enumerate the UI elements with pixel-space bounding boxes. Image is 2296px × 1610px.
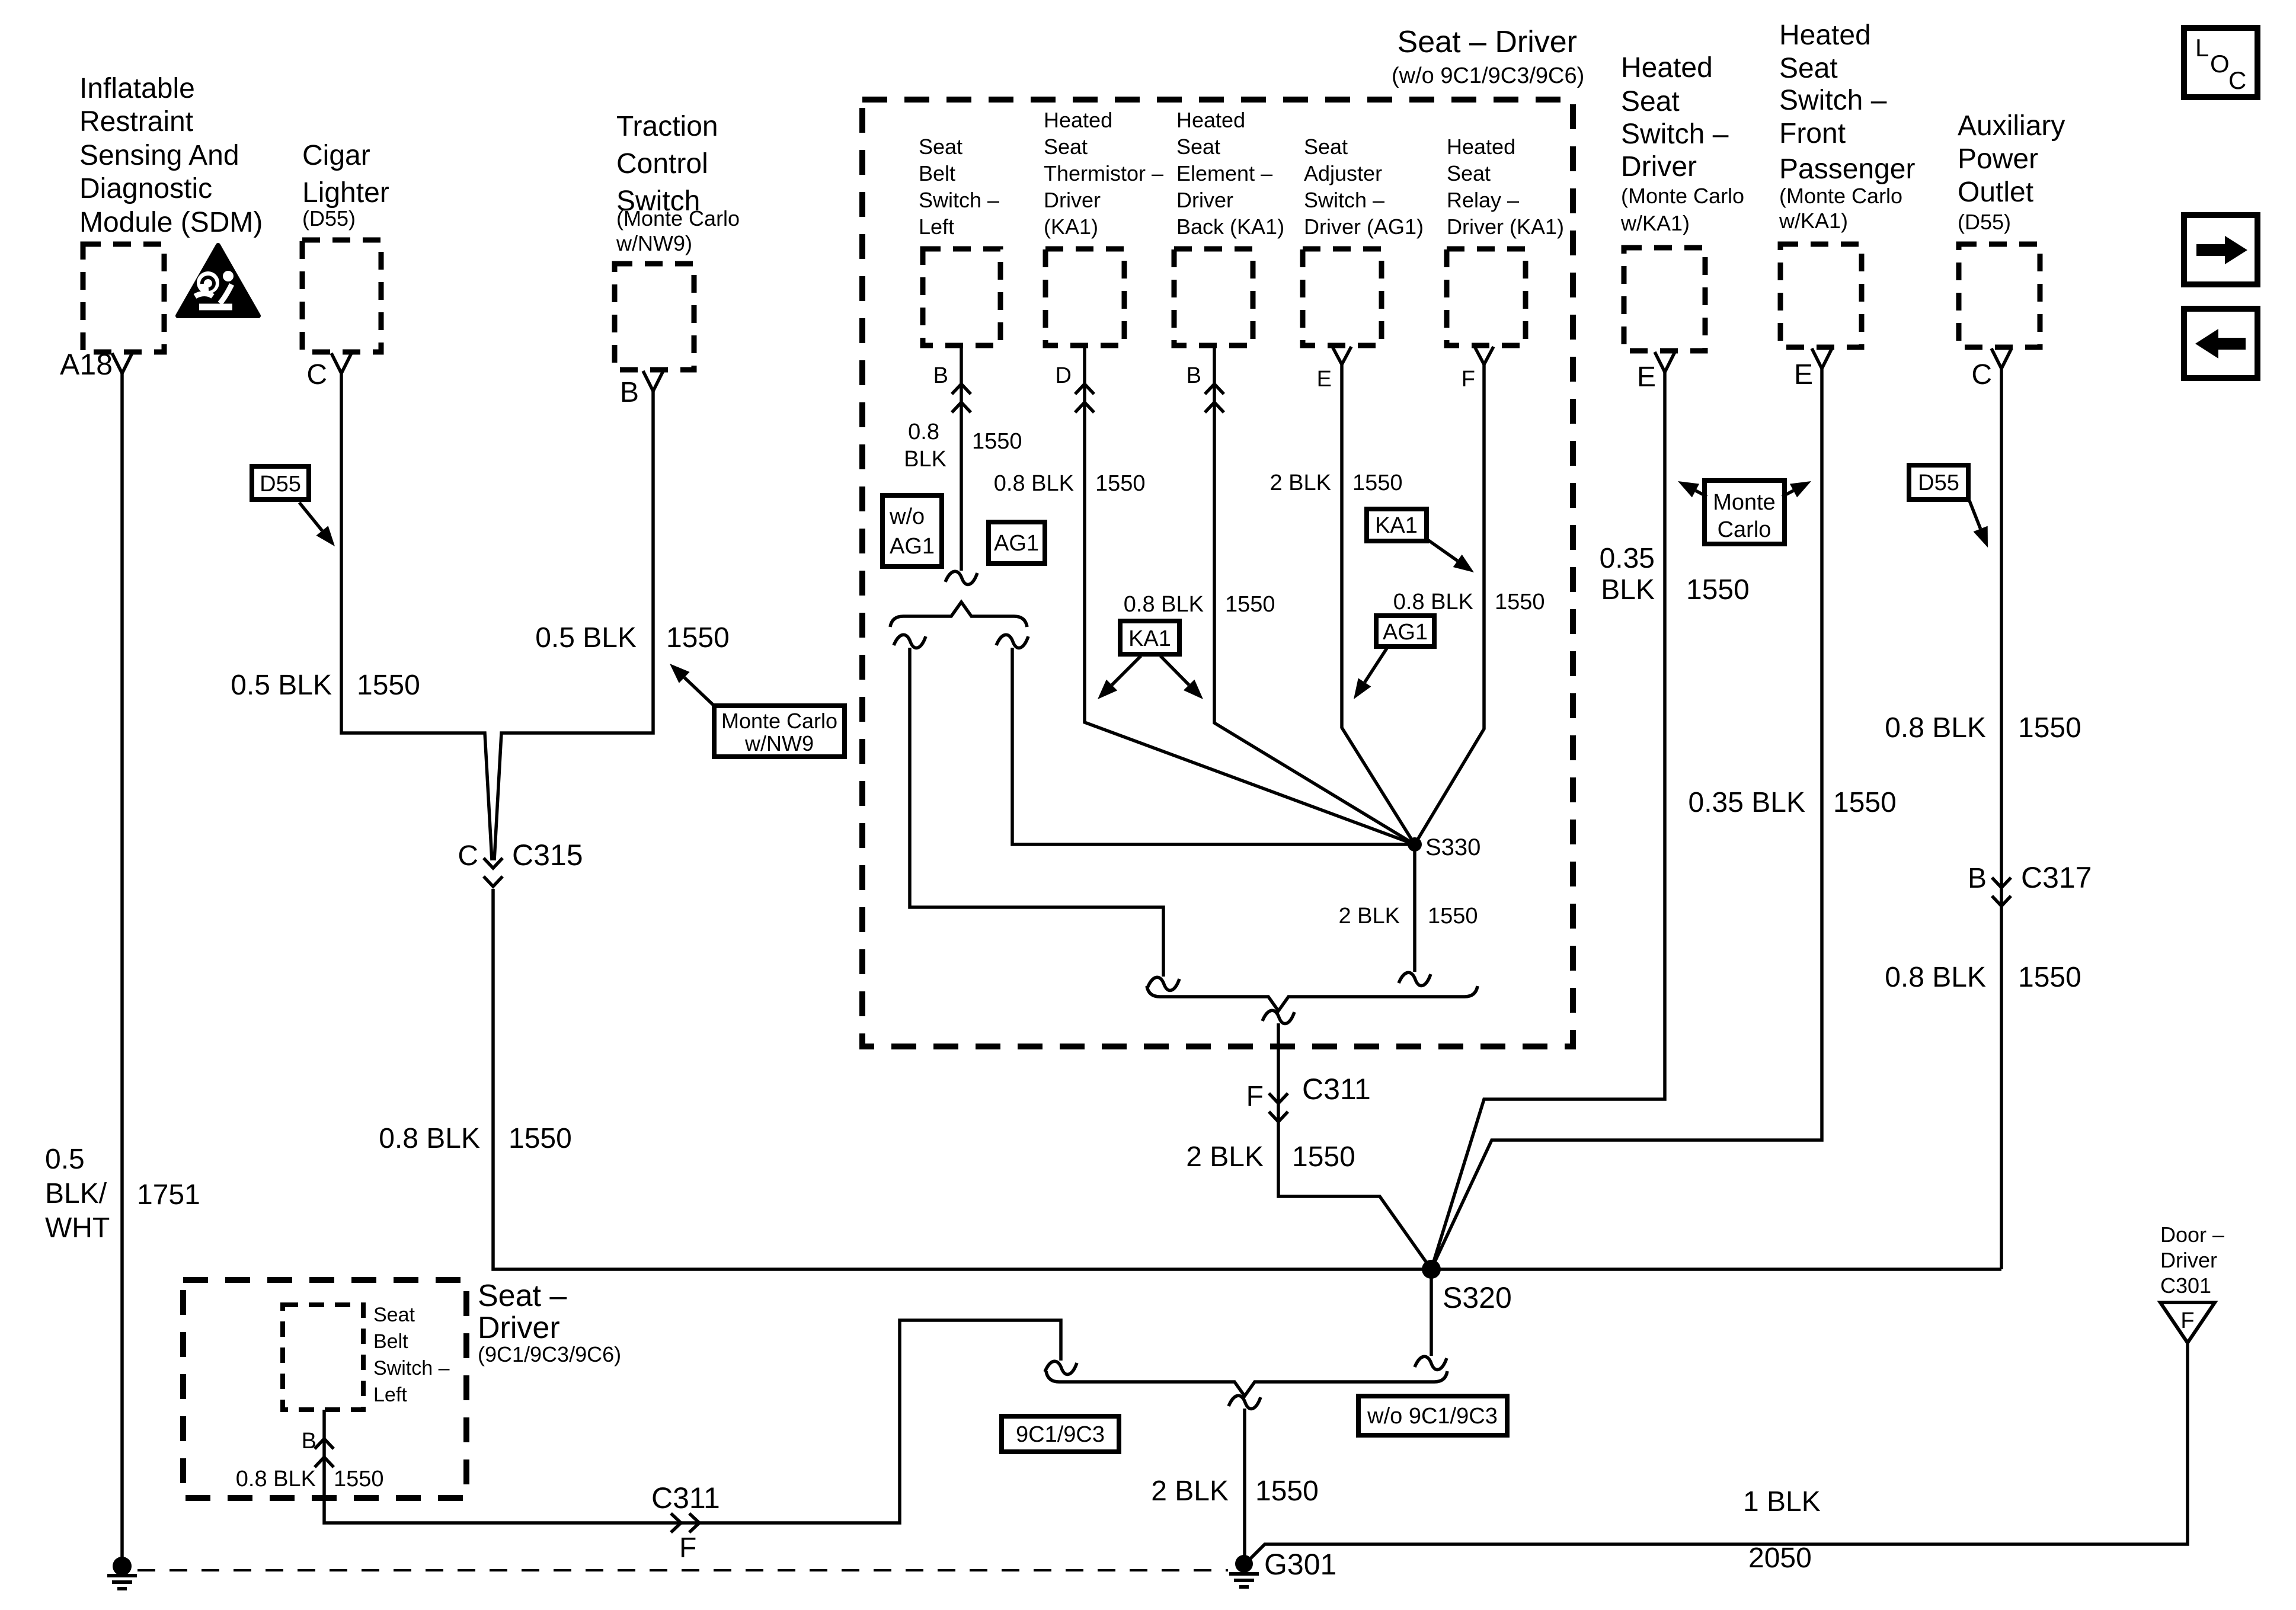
inline connector C317 (double chevron down) [1992, 878, 2011, 906]
brace (upward) joining w/o AG1 and AG1 branches [890, 602, 1027, 627]
callout arrow Monte Carlo to driver switch wire [1696, 491, 1707, 497]
connector box Auxiliary Power Outlet (dashed) [1959, 244, 2040, 347]
svg-text:B: B [1968, 863, 1987, 894]
terminal E of heated seat switch driver [1655, 352, 1675, 372]
svg-text:Driver: Driver [1176, 188, 1233, 212]
svg-text:BLK/: BLK/ [45, 1178, 107, 1209]
connector box SDM (dashed) [83, 244, 164, 352]
svg-text:Driver: Driver [1621, 151, 1697, 183]
svg-text:B: B [933, 363, 948, 388]
wire 1 BLK 2050 from G301 to door driver C301 [1251, 1343, 2188, 1558]
svg-text:C: C [1971, 359, 1992, 391]
svg-text:(KA1): (KA1) [1044, 215, 1098, 239]
svg-text:2 BLK: 2 BLK [1151, 1475, 1229, 1507]
svg-text:w/o 9C1/9C3: w/o 9C1/9C3 [1367, 1404, 1498, 1429]
wire 9C1/9C3 branch from seat belt switch to brace [324, 1320, 1061, 1523]
svg-text:Switch –: Switch – [1304, 188, 1384, 212]
svg-text:Seat: Seat [1176, 135, 1220, 159]
svg-text:0.8 BLK: 0.8 BLK [1393, 590, 1473, 614]
svg-text:Seat: Seat [1621, 86, 1680, 117]
wire B from seat element to S330 [1214, 345, 1415, 844]
svg-text:0.5: 0.5 [45, 1144, 85, 1175]
wire break squiggle (S330 wire end) [1399, 972, 1431, 985]
callout arrow D55 to aux wire [1969, 501, 1981, 529]
SRS warning triangle icon [178, 245, 258, 316]
svg-text:Switch –: Switch – [919, 188, 999, 212]
callout box D55 (left) [252, 466, 309, 500]
svg-text:Belt: Belt [373, 1330, 408, 1353]
inline connector chevron (seat belt 9C1 wire) [315, 1439, 334, 1467]
svg-text:0.8 BLK: 0.8 BLK [994, 471, 1074, 496]
connector box Heated Seat Switch - Driver (dashed) [1624, 248, 1705, 351]
callout box KA1 (thermistor/element) [1120, 621, 1179, 654]
svg-text:9C1/9C3: 9C1/9C3 [1016, 1422, 1105, 1447]
svg-text:C311: C311 [1302, 1073, 1371, 1106]
svg-text:2 BLK: 2 BLK [1269, 470, 1331, 495]
svg-text:Seat –: Seat – [478, 1279, 567, 1313]
wire break squiggle (S320 branch end) [1415, 1356, 1447, 1369]
LOC legend box [2184, 28, 2257, 97]
svg-text:(D55): (D55) [1958, 210, 2011, 234]
svg-text:KA1: KA1 [1375, 513, 1418, 538]
svg-text:Driver (KA1): Driver (KA1) [1447, 215, 1564, 239]
wire 0.8 BLK 1550 from aux power outlet to S320 line [2000, 369, 2003, 1269]
svg-text:Heated: Heated [1044, 108, 1112, 132]
callout box 9C1/9C3 [1002, 1416, 1119, 1452]
svg-text:Auxiliary: Auxiliary [1958, 110, 2065, 142]
svg-text:G301: G301 [1264, 1548, 1336, 1581]
svg-text:1550: 1550 [1686, 574, 1750, 606]
brace (downward) joining 9C1/9C3 and w/o 9C1/9C3 to G301 [1046, 1371, 1447, 1396]
connector box Heated Seat Thermistor (dashed) [1045, 249, 1124, 345]
svg-text:Seat: Seat [1779, 53, 1838, 84]
terminal F of heated seat relay [1475, 347, 1494, 364]
svg-text:C: C [306, 359, 327, 391]
wire 0.5 BLK 1550 from traction control switch [494, 391, 653, 860]
svg-text:1550: 1550 [2018, 962, 2081, 993]
wire 2 BLK 1550 from brace to G301 [1243, 1409, 1246, 1558]
svg-text:Door –: Door – [2160, 1222, 2224, 1247]
junction dot at SDM ground [113, 1557, 132, 1576]
ground symbol G301 [1229, 1574, 1259, 1587]
svg-text:S320: S320 [1443, 1281, 1512, 1314]
wire 0.5 BLK/WHT 1751 from SDM A18 to ground [120, 373, 124, 1557]
connector box Heated Seat Element (dashed) [1174, 249, 1253, 345]
svg-text:0.5 BLK: 0.5 BLK [231, 670, 332, 701]
wire break squiggle (w/o AG1 branch end) [1147, 977, 1179, 990]
callout arrow KA1 to element wire [1160, 656, 1189, 685]
inline connector chevron (thermistor wire) [1075, 384, 1094, 412]
svg-text:1550: 1550 [1352, 470, 1403, 495]
svg-text:Adjuster: Adjuster [1304, 161, 1382, 185]
svg-text:F: F [1462, 367, 1475, 392]
connector box Traction Control Switch (dashed) [615, 264, 694, 370]
wire 0.35 BLK 1550 from front passenger switch to S320 [1431, 369, 1822, 1269]
svg-text:A18: A18 [60, 348, 113, 381]
svg-text:0.8 BLK: 0.8 BLK [1124, 592, 1204, 617]
svg-text:Switch –: Switch – [373, 1357, 450, 1379]
svg-text:Monte Carlo: Monte Carlo [721, 709, 837, 733]
wire break squiggle (w/o AG1 branch top) [894, 635, 926, 648]
connector box Cigar Lighter (dashed) [302, 240, 381, 352]
svg-text:0.8 BLK: 0.8 BLK [1885, 712, 1986, 744]
svg-text:Belt: Belt [919, 161, 955, 185]
terminal C of cigar lighter [331, 353, 351, 373]
left arrow legend box [2184, 309, 2257, 378]
svg-text:0.5 BLK: 0.5 BLK [535, 622, 637, 654]
terminal B of traction control switch [643, 371, 663, 391]
svg-text:O: O [2210, 50, 2230, 78]
connector box Seat Adjuster Switch (dashed) [1303, 249, 1382, 345]
connector triangle C301 terminal F [2160, 1302, 2215, 1343]
svg-text:1 BLK: 1 BLK [1743, 1486, 1821, 1518]
svg-text:(D55): (D55) [302, 206, 356, 231]
wire break squiggle (below bottom brace) [1229, 1395, 1261, 1409]
svg-text:Switch –: Switch – [1779, 85, 1887, 116]
svg-text:Element –: Element – [1176, 161, 1272, 185]
callout arrow KA1 to relay wire [1428, 540, 1457, 561]
wire D from thermistor to S330 [1085, 345, 1415, 844]
callout box D55 (right) [1909, 465, 1968, 500]
svg-text:S330: S330 [1425, 834, 1480, 860]
svg-text:E: E [1794, 359, 1813, 391]
svg-text:Driver: Driver [2160, 1248, 2217, 1272]
svg-text:Lighter: Lighter [302, 177, 389, 209]
svg-text:C311: C311 [651, 1481, 720, 1515]
svg-text:1550: 1550 [334, 1467, 384, 1491]
svg-text:1550: 1550 [1292, 1141, 1355, 1173]
callout box Monte Carlo (right) [1705, 481, 1785, 544]
svg-text:Cigar: Cigar [302, 140, 370, 171]
inline connector C311 F (double chevron down) [1269, 1093, 1288, 1122]
callout arrow Monte Carlo to passenger switch wire [1782, 491, 1793, 497]
svg-text:Control: Control [616, 148, 708, 180]
wire 0.8 BLK 1550 from C315 down and right to S320 [493, 889, 2001, 1269]
connector box Seat Belt Switch - Left 9C1 (dashed) [283, 1305, 363, 1410]
svg-text:BLK: BLK [1601, 574, 1655, 606]
svg-text:Relay –: Relay – [1447, 188, 1519, 212]
svg-text:1550: 1550 [509, 1123, 572, 1154]
svg-text:Inflatable: Inflatable [79, 73, 195, 104]
svg-text:F: F [2180, 1308, 2194, 1333]
svg-text:w/o: w/o [889, 504, 925, 529]
svg-text:Seat: Seat [1447, 161, 1491, 185]
svg-text:1550: 1550 [1428, 904, 1478, 929]
svg-text:C: C [2228, 66, 2246, 94]
svg-text:Diagnostic: Diagnostic [79, 173, 212, 204]
dashed harness box Seat - Driver (9C1/9C3/9C6) [183, 1280, 466, 1498]
svg-text:Front: Front [1779, 118, 1846, 149]
svg-text:Switch –: Switch – [1621, 119, 1729, 150]
svg-text:1550: 1550 [666, 622, 730, 654]
svg-text:Carlo: Carlo [1718, 517, 1771, 542]
svg-text:Restraint: Restraint [79, 106, 193, 137]
callout box AG1 [989, 522, 1045, 564]
svg-text:L: L [2195, 34, 2209, 62]
svg-text:1550: 1550 [1095, 471, 1146, 496]
svg-text:(9C1/9C3/9C6): (9C1/9C3/9C6) [478, 1342, 621, 1366]
svg-text:D55: D55 [1918, 470, 1959, 495]
svg-text:C: C [458, 840, 478, 872]
svg-text:0.8 BLK: 0.8 BLK [236, 1467, 316, 1491]
terminal A18 of SDM [112, 353, 132, 373]
svg-text:F: F [1246, 1081, 1264, 1112]
svg-text:Heated: Heated [1779, 20, 1871, 51]
svg-text:Thermistor –: Thermistor – [1044, 161, 1163, 185]
svg-text:D55: D55 [260, 472, 301, 497]
svg-text:Seat: Seat [1304, 135, 1348, 159]
svg-text:Seat: Seat [919, 135, 962, 159]
svg-text:0.35 BLK: 0.35 BLK [1689, 787, 1805, 818]
svg-text:Power: Power [1958, 143, 2038, 175]
wire B from seat belt switch [960, 345, 963, 571]
ground reference dashed line [137, 1569, 1228, 1571]
callout arrow KA1 to thermistor wire [1112, 656, 1141, 685]
svg-text:w/NW9): w/NW9) [616, 231, 692, 255]
svg-text:Seat – Driver: Seat – Driver [1398, 25, 1577, 59]
ground symbol (SDM side) [107, 1576, 137, 1589]
wire w/o AG1 branch down and right [910, 648, 1163, 977]
svg-text:(Monte Carlo: (Monte Carlo [1779, 184, 1902, 208]
wire from S320 down to brace [1430, 1269, 1433, 1356]
svg-text:(Monte Carlo: (Monte Carlo [1621, 184, 1744, 208]
svg-text:1550: 1550 [2018, 712, 2081, 744]
svg-text:Driver: Driver [1044, 188, 1101, 212]
callout arrow D55 to wire [299, 502, 322, 531]
splice S330 [1408, 837, 1422, 852]
svg-text:D: D [1056, 363, 1072, 388]
svg-text:B: B [302, 1429, 316, 1454]
svg-text:E: E [1637, 361, 1656, 393]
wire AG1 branch to S330 [1012, 648, 1415, 844]
callout box Monte Carlo w/NW9 [714, 706, 845, 757]
connector box Heated Seat Relay (dashed) [1447, 249, 1526, 345]
svg-text:Heated: Heated [1621, 52, 1713, 84]
svg-text:Driver: Driver [478, 1311, 560, 1345]
right arrow legend box [2184, 215, 2257, 284]
svg-text:2050: 2050 [1748, 1542, 1812, 1574]
wire E from seat adjuster switch to S330 [1342, 364, 1415, 844]
svg-text:AG1: AG1 [994, 531, 1039, 556]
ground G301 dot [1235, 1555, 1253, 1573]
inline connector C315 (double chevron) [484, 858, 503, 886]
svg-text:Outlet: Outlet [1958, 177, 2033, 208]
svg-text:Traction: Traction [616, 111, 718, 142]
svg-text:Driver (AG1): Driver (AG1) [1304, 215, 1424, 239]
wire break squiggle (seat belt wire end) [945, 571, 977, 584]
svg-text:Heated: Heated [1447, 135, 1515, 159]
svg-text:Left: Left [919, 215, 954, 239]
svg-text:C317: C317 [2021, 861, 2092, 894]
svg-text:Sensing And: Sensing And [79, 140, 239, 171]
callout box AG1 (adjuster wire) [1376, 616, 1434, 646]
svg-text:AG1: AG1 [1383, 620, 1428, 645]
callout box w/o AG1 [882, 495, 942, 566]
svg-text:0.8 BLK: 0.8 BLK [379, 1123, 480, 1154]
callout arrow Monte Carlo w/NW9 to wire [685, 677, 715, 707]
wire break squiggle (below brace center) [1262, 1010, 1294, 1023]
svg-text:WHT: WHT [45, 1212, 110, 1244]
svg-text:Seat: Seat [1044, 135, 1088, 159]
svg-text:w/KA1): w/KA1) [1620, 211, 1690, 235]
svg-text:Back (KA1): Back (KA1) [1176, 215, 1284, 239]
svg-text:0.8: 0.8 [908, 420, 939, 444]
wire 0.5 BLK 1550 from cigar lighter [341, 373, 492, 860]
callout arrow AG1 to adjuster wire [1365, 648, 1387, 683]
wire 0.35 BLK 1550 from heated seat switch driver to S320 [1431, 372, 1665, 1269]
svg-text:w/NW9: w/NW9 [744, 731, 814, 756]
dashed harness box Seat - Driver (w/o 9C1/9C3/9C6) [862, 100, 1573, 1046]
svg-text:2 BLK: 2 BLK [1186, 1141, 1264, 1173]
svg-text:C301: C301 [2160, 1273, 2211, 1298]
svg-text:0.35: 0.35 [1600, 543, 1655, 574]
terminal C of auxiliary power outlet [1991, 348, 2012, 369]
svg-text:E: E [1317, 367, 1332, 392]
svg-text:0.8 BLK: 0.8 BLK [1885, 962, 1986, 993]
wire 2 BLK 1550 from brace to C311 F and S320 [1278, 1023, 1431, 1269]
inline connector chevron (seat element wire) [1205, 384, 1224, 412]
svg-text:Seat: Seat [373, 1304, 415, 1326]
brace (downward) joining branches to C311 F [1147, 986, 1478, 1011]
svg-text:Heated: Heated [1176, 108, 1245, 132]
svg-text:Monte: Monte [1713, 490, 1776, 515]
svg-text:Passenger: Passenger [1779, 153, 1915, 185]
svg-text:BLK: BLK [904, 447, 946, 472]
terminal E of heated seat switch front passenger [1812, 348, 1832, 369]
svg-text:(w/o 9C1/9C3/9C6): (w/o 9C1/9C3/9C6) [1392, 63, 1584, 88]
svg-text:C315: C315 [512, 838, 583, 872]
callout box KA1 (relay wire) [1367, 509, 1427, 541]
terminal E of seat adjuster switch [1332, 347, 1351, 364]
svg-text:B: B [620, 377, 639, 408]
inline connector chevron (seat belt wire) [952, 384, 971, 412]
svg-text:1550: 1550 [1833, 787, 1897, 818]
connector box Seat Belt Switch - Left (dashed) [923, 249, 1000, 345]
svg-text:F: F [679, 1532, 696, 1564]
svg-text:(Monte Carlo: (Monte Carlo [616, 206, 740, 231]
svg-text:AG1: AG1 [890, 534, 935, 559]
wire break squiggle (9C1/9C3 branch end) [1045, 1361, 1077, 1374]
wire F from heated seat relay to S330 [1415, 364, 1484, 844]
svg-text:2 BLK: 2 BLK [1338, 904, 1400, 929]
splice S320 [1422, 1260, 1441, 1279]
connector box Heated Seat Switch - Front Passenger (dashed) [1780, 244, 1862, 347]
inline connector C311 F (bottom, double chevron right) [671, 1513, 699, 1532]
wire break squiggle (AG1 branch top) [996, 635, 1028, 648]
svg-text:1751: 1751 [137, 1179, 200, 1211]
svg-text:1550: 1550 [972, 429, 1022, 454]
svg-text:w/KA1): w/KA1) [1779, 209, 1848, 233]
svg-text:1550: 1550 [1225, 592, 1275, 617]
svg-text:KA1: KA1 [1128, 626, 1171, 651]
wire 2 BLK 1550 from S330 down [1413, 844, 1416, 972]
callout box w/o 9C1/9C3 [1358, 1396, 1507, 1435]
svg-text:Left: Left [373, 1384, 407, 1406]
svg-text:1550: 1550 [1255, 1475, 1319, 1507]
svg-text:B: B [1187, 363, 1201, 388]
svg-text:Module (SDM): Module (SDM) [79, 207, 263, 238]
svg-text:1550: 1550 [357, 670, 420, 701]
svg-text:1550: 1550 [1495, 590, 1545, 614]
